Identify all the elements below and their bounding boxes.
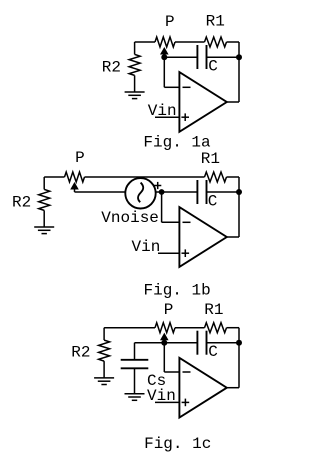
potentiometer P (Fig1a) — [155, 37, 175, 47]
wire: Fig1b R2 bottom lead — [43, 210, 45, 227]
op-amp plus sign (Fig1c) — [182, 401, 190, 403]
ground (Fig1c Cs) — [125, 393, 145, 395]
capacitor C (Fig1c) plates — [196, 331, 198, 355]
ground (Fig1c R2) — [94, 377, 114, 379]
svg-text:P: P — [75, 149, 85, 167]
svg-text:Vin: Vin — [132, 238, 161, 256]
svg-text:Fig. 1c: Fig. 1c — [144, 435, 211, 453]
wire: Fig1b node down to inverting input — [161, 192, 163, 222]
resistor R2 (Fig1b) — [39, 189, 50, 210]
wire: Fig1b R2 top lead vertical — [43, 177, 45, 189]
wire: Fig1c cap right lead to output node — [207, 342, 240, 344]
op-amp plus sign (Fig1b) — [182, 252, 190, 254]
wire: Fig1a output from op-amp apex — [227, 101, 239, 103]
source plus terminal sign (Fig1b) — [154, 185, 161, 187]
wire: Fig1b Vnoise output to cap C — [156, 191, 198, 193]
source Vnoise circle (Fig1b) — [125, 178, 155, 208]
node: Fig1b Vnoise+ junction dot — [159, 189, 165, 195]
wire: Fig1c output from apex — [227, 387, 239, 389]
wire: Fig1a R2 top lead vertical — [134, 42, 136, 54]
wire: Fig1a R2 bottom lead — [134, 75, 136, 92]
resistor R2 (Fig1c) — [99, 340, 110, 361]
op-amp minus sign (Fig1c) — [183, 371, 191, 373]
wire: Fig1b Vin to non-inverting input — [158, 252, 179, 254]
potentiometer P (Fig1b) — [65, 172, 85, 182]
svg-text:Fig. 1a: Fig. 1a — [143, 134, 211, 152]
op-amp plus sign (Fig1a) — [181, 116, 189, 118]
capacitor C (Fig1a) plates — [196, 45, 198, 69]
wire: Fig1b output from apex — [227, 236, 239, 238]
svg-text:Vin: Vin — [148, 102, 177, 120]
resistor R1 (Fig1b) — [205, 172, 227, 182]
node: Fig1a output junction dot — [236, 54, 242, 60]
ground (Fig1b) — [34, 226, 54, 228]
op-amp minus sign (Fig1b) — [183, 221, 191, 223]
wire: Fig1a top-left corner horizontal from R2 to P — [135, 41, 155, 43]
svg-text:R1: R1 — [201, 150, 220, 168]
ground (Fig1a) — [125, 91, 145, 93]
wire: Fig1b right vertical feedback — [238, 177, 240, 237]
svg-text:C: C — [208, 193, 218, 211]
resistor R1 (Fig1a) — [205, 37, 227, 47]
node: Fig1a wiper junction dot — [161, 54, 167, 60]
potentiometer wiper arrow (Fig1a) — [161, 49, 167, 54]
svg-text:Vnoise: Vnoise — [101, 209, 159, 227]
svg-text:P: P — [165, 13, 175, 31]
wire: Fig1a inverting input horizontal — [164, 86, 179, 88]
wire: Fig1b wiper to Vnoise source — [75, 191, 126, 193]
wire: Fig1a R1 right to corner — [227, 41, 240, 43]
source Vnoise sine squiggle — [138, 183, 143, 203]
wire: Fig1a wiper node down to inverting input — [163, 57, 165, 87]
op-amp U2 (Fig1b) — [179, 207, 226, 267]
op-amp minus sign (Fig1a) — [183, 86, 191, 88]
wire: Fig1c wiper node down to inverting input — [163, 343, 165, 372]
node: Fig1c output junction dot — [236, 340, 242, 346]
svg-text:Vin: Vin — [147, 387, 176, 405]
svg-text:R2: R2 — [12, 194, 31, 212]
wire: Fig1a right vertical output feedback — [238, 42, 240, 102]
wire: Fig1c Cs bottom lead to ground — [134, 368, 136, 393]
wire: Fig1c mid wire from Cs to cap C left plate — [135, 342, 198, 344]
svg-text:C: C — [208, 343, 218, 361]
capacitor Cs (Fig1c) plates — [121, 359, 149, 361]
wire: Fig1b R1 right to corner — [227, 176, 240, 178]
wire: Fig1c Cs top lead vertical — [134, 343, 136, 360]
op-amp U1 (Fig1a) — [179, 72, 226, 132]
wire: Fig1a Vin to non-inverting input — [155, 116, 179, 118]
op-amp U3 (Fig1c) — [179, 358, 226, 418]
wire: Fig1c R2 top lead vertical — [103, 328, 105, 340]
wire: Fig1a P right terminal to R1 — [175, 41, 205, 43]
svg-text:R2: R2 — [102, 58, 121, 76]
wire: Fig1b P right terminal across to R1 — [85, 176, 205, 178]
wire: Fig1c top-left corner horizontal from R2 to P — [104, 327, 155, 329]
svg-text:Fig. 1b: Fig. 1b — [144, 281, 211, 299]
wire: Fig1b top-left corner horizontal from R2 to P — [44, 176, 64, 178]
svg-text:P: P — [164, 301, 174, 319]
wire: Fig1c Vin to non-inverting input — [155, 401, 179, 403]
svg-text:R1: R1 — [204, 301, 223, 319]
potentiometer P (Fig1c) — [155, 323, 175, 333]
node: Fig1c wiper junction dot — [161, 340, 167, 346]
wire: Fig1a wiper node to cap left plate — [164, 56, 197, 58]
wire: Fig1a cap right lead to output node — [207, 56, 240, 58]
resistor R1 (Fig1c) — [205, 323, 227, 333]
capacitor C (Fig1b) plates — [196, 180, 198, 204]
wire: Fig1c right vertical feedback — [238, 328, 240, 388]
svg-text:R2: R2 — [71, 343, 90, 361]
resistor R2 (Fig1a) — [129, 54, 140, 75]
node: Fig1b output junction dot — [236, 189, 242, 195]
svg-text:C: C — [208, 58, 218, 76]
wire: Fig1c R1 right to corner — [227, 327, 240, 329]
potentiometer wiper arrow (Fig1b) — [72, 184, 78, 189]
wire: Fig1b cap right lead to output node — [207, 191, 240, 193]
svg-text:R1: R1 — [206, 13, 225, 31]
potentiometer wiper arrow (Fig1c) — [161, 334, 167, 339]
wire: Fig1c P right terminal to R1 — [175, 327, 205, 329]
wire: Fig1c R2 bottom lead — [103, 361, 105, 378]
